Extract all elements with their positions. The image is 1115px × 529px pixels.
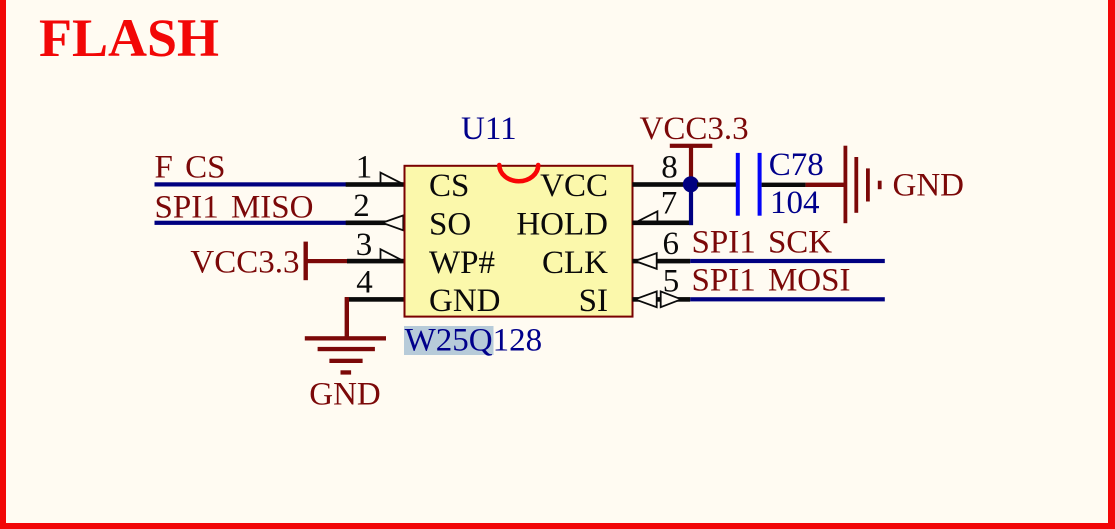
wire net SPI1_SCK (blue) [690,259,885,263]
ground symbol bar 1 [305,336,386,340]
pin 5 bidirectional arrow right [661,291,682,307]
capacitor C78 plate 1 [736,153,740,216]
svg-text:GND: GND [429,283,501,319]
wire junction to capacitor (black) [697,182,737,186]
power port VCC3.3 (right) bar [670,144,713,148]
svg-text:SPI1 MISO: SPI1 MISO [155,190,314,226]
IC U11 body [405,166,633,317]
pin 7 wire (black) [632,221,693,226]
pin 8 wire (black) [632,182,692,187]
svg-text:CS: CS [429,168,469,204]
pin 1 wire (black) [346,182,405,187]
svg-text:U11: U11 [461,111,517,147]
ground symbol bar 3 [329,359,362,363]
part value highlight [404,326,494,355]
svg-text:SPI1 MOSI: SPI1 MOSI [692,262,851,298]
pin 6 wire (black) [632,259,690,264]
ground stem wire (maroon) [345,297,349,338]
sheet border bottom [0,523,1115,529]
svg-text:W25Q128: W25Q128 [405,323,542,359]
pin 3 wire (black) [347,259,404,264]
svg-text:C78: C78 [769,147,824,183]
svg-text:GND: GND [893,168,965,204]
ground (right) bar 2 [854,157,858,213]
power wire VCC3.3 to pin 3 (maroon) [306,259,348,263]
pin 4 wire (black) [345,297,404,302]
junction dot [683,176,699,192]
svg-text:8: 8 [661,149,678,185]
wire net SPI1_MISO (blue) [155,221,347,225]
ground symbol bar 4 [341,370,352,374]
wire pin7 up to junction (navy) [689,184,693,225]
capacitor C78 plate 2 [758,153,762,216]
svg-text:VCC: VCC [540,168,608,204]
pin 5 wire (black) [632,297,690,302]
svg-text:SO: SO [429,207,471,243]
power stem VCC3.3 (maroon) [689,146,693,182]
svg-text:1: 1 [356,149,373,185]
svg-text:3: 3 [356,227,373,263]
svg-text:VCC3.3: VCC3.3 [640,111,749,147]
pin 2 wire (black) [346,221,405,226]
svg-text:FLASH: FLASH [39,8,219,68]
ground symbol bar 2 [318,347,375,351]
ground (right) bar 4 [878,181,882,190]
sheet border left [0,0,6,529]
svg-text:104: 104 [770,185,820,221]
svg-text:SPI1 SCK: SPI1 SCK [692,225,833,261]
pin 3 input half-arrow [381,249,404,261]
pin 7 input half-arrow [635,211,658,223]
wire net F_CS (blue) [155,182,347,186]
svg-text:VCC3.3: VCC3.3 [190,244,299,280]
svg-text:HOLD: HOLD [516,207,608,243]
svg-text:CLK: CLK [542,245,608,281]
svg-text:7: 7 [661,186,678,222]
svg-text:6: 6 [663,226,680,262]
svg-text:4: 4 [356,265,373,301]
wire to ground (maroon) [806,183,844,187]
pin 1 input half-arrow [381,173,404,185]
wire capacitor to ground (black) [762,183,806,187]
svg-text:SI: SI [579,283,608,319]
pin 2 output arrow [382,215,403,230]
wire net SPI1_MOSI (blue) [690,297,885,301]
sheet border right [1108,0,1115,529]
svg-text:F CS: F CS [155,149,226,185]
svg-text:5: 5 [663,264,680,300]
IC notch arc (red) [499,165,538,181]
pin 6 input arrow [635,253,657,269]
power port VCC3.3 (left) bar [304,242,308,281]
pin 5 bidirectional arrow left [635,291,657,307]
ground (right) bar 3 [866,168,870,201]
svg-text:2: 2 [353,188,370,224]
svg-text:GND: GND [309,376,381,412]
ground (right) bar 1 [844,146,848,224]
svg-text:WP#: WP# [429,245,495,281]
